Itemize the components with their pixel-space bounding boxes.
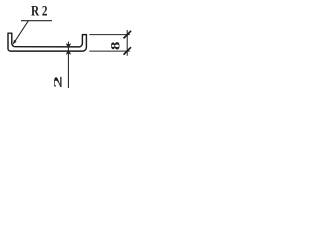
svg-text:8: 8 [109, 42, 122, 50]
svg-text:2: 2 [52, 76, 65, 88]
svg-text:R 2: R 2 [31, 4, 48, 20]
